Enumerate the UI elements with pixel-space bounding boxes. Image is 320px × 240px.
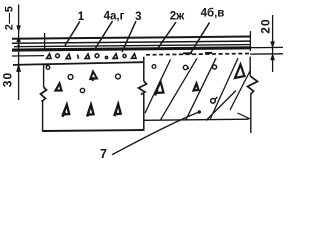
corner stub line — [238, 113, 251, 119]
left dimension line vertical — [18, 5, 20, 101]
svg-text:30: 30 — [1, 72, 15, 88]
right panel right edge lower, extends below bottom — [250, 94, 252, 133]
right dimension line vertical — [272, 15, 274, 72]
right dim extension top — [250, 46, 283, 48]
left panel glyph circle small — [80, 88, 84, 92]
right panel right edge break zigzag — [248, 76, 258, 95]
right panel glyph sigma circle — [211, 99, 216, 104]
hatch line h1 — [145, 60, 171, 114]
left dim arrow up at L1 — [17, 37, 20, 41]
right panel right edge upper — [249, 57, 251, 76]
left panel glyph circle — [116, 74, 121, 79]
joint line break zigzag — [139, 81, 147, 95]
aggregate band glyph a4 — [78, 55, 79, 59]
right dim arrow down 20 — [271, 42, 275, 47]
left panel glyph small rho circle — [46, 66, 50, 70]
left tick above panel edge — [44, 33, 46, 49]
aggregate band glyph a8 — [113, 54, 118, 59]
left panel left edge upper — [43, 65, 45, 88]
left panel glyph triangle bottom 2 — [87, 105, 94, 117]
layer line L3 — [14, 45, 250, 47]
right panel glyph triangle — [155, 82, 163, 96]
left dim arrow up 30 — [17, 64, 21, 71]
hatch line h2 — [161, 58, 198, 120]
layer line L2 — [12, 41, 250, 43]
svg-text:4а,г: 4а,г — [104, 11, 125, 23]
aggregate band glyph a7 — [105, 56, 107, 58]
right panel bottom line — [144, 119, 249, 120]
svg-text:7: 7 — [100, 147, 107, 161]
right panel glyph circle — [212, 65, 216, 69]
left panel glyph triangle bottom 3 — [114, 104, 120, 116]
hatch line h4 — [210, 58, 238, 120]
aggregate band glyph a9 — [123, 54, 126, 57]
leader for label 4a,g — [94, 21, 113, 51]
svg-text:20: 20 — [258, 18, 272, 34]
hatch line h6 diagonal 45 — [206, 91, 236, 121]
right panel glyph circle small — [152, 65, 156, 69]
dotted screed line over right panel — [146, 54, 250, 55]
left panel glyph circle — [68, 75, 73, 80]
joint line between panels upper — [143, 57, 145, 81]
right extension vertical — [249, 31, 251, 51]
left dim arrow down 2-5 — [17, 26, 20, 32]
hatch line h5 — [230, 70, 251, 110]
left panel top line with 30-extension — [13, 62, 143, 65]
right dim extension bottom — [250, 53, 283, 55]
leader for label 4b,v — [190, 23, 210, 55]
svg-text:2ж: 2ж — [170, 11, 185, 23]
joint line lower — [143, 94, 145, 131]
svg-text:2—5: 2—5 — [4, 6, 16, 30]
leader for label 1 — [65, 22, 80, 46]
layer line L5 left stub — [12, 55, 44, 57]
aggregate band glyph a5 — [85, 54, 90, 59]
right panel glyph triangle — [194, 84, 199, 91]
leader for label 3 — [122, 21, 136, 52]
left panel bottom line — [43, 130, 144, 131]
aggregate band glyph a1 — [47, 54, 52, 59]
svg-text:4б,в: 4б,в — [201, 8, 225, 20]
aggregate band glyph a2 — [56, 54, 60, 58]
right dim arrow up 20 — [271, 54, 275, 60]
left dim blob at L2 — [17, 44, 20, 47]
aggregate band glyph a6 — [95, 54, 99, 58]
layer line L1 (top surface, linoleum) — [12, 37, 250, 39]
aggregate band glyph a3 — [66, 54, 71, 59]
leader for label 7 — [112, 112, 199, 155]
layer line L4 thick (mastic layer) — [12, 48, 250, 50]
left panel left edge lower — [42, 101, 44, 132]
left panel glyph triangle bottom 1 — [63, 105, 70, 117]
left panel left edge break zigzag — [41, 87, 47, 102]
right panel glyph big triangle — [235, 65, 245, 79]
screed extra dashes — [183, 52, 212, 55]
right panel glyph a-circle — [183, 65, 187, 69]
aggregate band glyph a10 — [132, 54, 137, 59]
svg-text:3: 3 — [135, 11, 141, 23]
left panel glyph triangle 4-shape — [90, 72, 97, 82]
svg-text:1: 1 — [78, 11, 85, 23]
hatch line h3 — [186, 58, 216, 119]
leader for label 2zh — [157, 22, 176, 50]
left panel glyph triangle — [56, 84, 62, 91]
